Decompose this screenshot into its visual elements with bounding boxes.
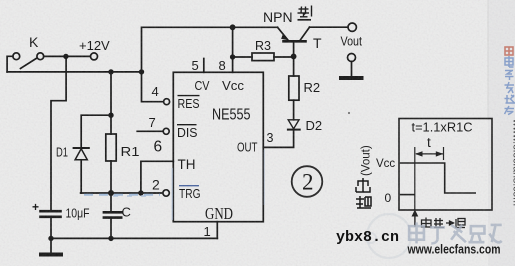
node TRG-TH junction (138, 190, 143, 195)
char shu (359, 196, 361, 208)
terminal Vout lower common (348, 54, 356, 62)
terminal Vout (348, 23, 356, 31)
node R3-Vcc junction (230, 54, 235, 59)
watermark logo faint (367, 214, 411, 258)
wire junction K down to capacitor branch (51, 59, 66, 210)
wire +12V rail (7, 71, 141, 73)
capacitor C plates (104, 211, 121, 214)
char duan (435, 218, 437, 228)
wire switch right to +12V terminal (44, 55, 91, 57)
wire TRG node (81, 192, 163, 194)
waveform inset diagram (399, 119, 492, 211)
dimension line t (416, 153, 444, 155)
node ground-C junction (108, 236, 113, 241)
wire C to ground rail (110, 218, 112, 239)
switch-on arrow stem (414, 216, 416, 227)
dimension arrowheads (412, 151, 444, 216)
node rail-R1 junction (108, 69, 113, 74)
waveform high level (400, 163, 476, 193)
diode D2 (288, 120, 299, 129)
svg-text:www.elecfans.com: www.elecfans.com (511, 118, 515, 206)
wire capacitor 10uF to ground rail (50, 217, 52, 239)
terminal pin2 (163, 190, 169, 196)
char you (505, 106, 515, 115)
arrow (446, 222, 452, 224)
waveform t-start marker (414, 147, 416, 210)
transistor Q T (278, 27, 310, 76)
char shao (505, 95, 515, 103)
node D1-R1 top junction (108, 113, 113, 118)
ground symbol (50, 238, 52, 253)
seal mark (505, 47, 513, 55)
char tong (455, 219, 457, 227)
resistor R3 (252, 53, 274, 61)
waveform box (399, 119, 492, 211)
diode D1 (74, 147, 89, 149)
waveform labels (361, 121, 473, 206)
node TRG-C junction (108, 190, 114, 196)
wire rail to R1 (110, 72, 112, 134)
switch-on arrow below box (412, 210, 419, 217)
char dian (505, 56, 514, 67)
switch K blade (21, 58, 37, 68)
char chu (358, 181, 368, 186)
scan speck (348, 112, 350, 114)
node topline-Vcc junction (230, 24, 236, 30)
watermark vertical elecfans column (505, 47, 515, 206)
wire C branch (110, 193, 112, 212)
wire top line to transistor (142, 27, 278, 72)
blue scan artifact box edge (171, 168, 173, 220)
char fa (505, 82, 515, 93)
node base junction (291, 54, 297, 60)
wire pin4 from rail (142, 72, 164, 102)
node ground-cap junction (48, 236, 53, 241)
wire switch left to rail (7, 56, 13, 72)
switch K terminals (13, 53, 20, 60)
wire R3 to base node (274, 56, 294, 58)
node K-12V junction (63, 54, 68, 59)
pseudo glyphs you-duan-tong annotation (422, 218, 466, 229)
svg-text:ybx8.cn: ybx8.cn (336, 230, 399, 246)
wire bottom ground rail (51, 237, 217, 239)
wire to R3 (233, 56, 252, 58)
pin5 stub (203, 59, 205, 73)
terminal +12V (91, 53, 98, 60)
wire TH branch (141, 161, 173, 193)
callout circled 2 (292, 166, 323, 197)
resistor R2 (289, 76, 299, 100)
pin7 stub wire (137, 130, 163, 132)
terminal pin4 (164, 99, 170, 105)
capacitor 10uF plates (41, 210, 61, 213)
pseudo glyph CJK xing of NPN type (298, 6, 312, 20)
node rail-pin4 junction (139, 69, 144, 74)
waveform zero tick (400, 194, 415, 196)
resistor R1 (106, 134, 116, 161)
wire Vcc drop pin8 (232, 27, 234, 72)
wire R1 to TRG node (110, 161, 112, 193)
watermark CJK dianzifashaoyou (409, 222, 502, 243)
pseudo glyph shuchu axis label (356, 178, 371, 208)
wire emitter to Vout (310, 26, 349, 28)
pin1 stub (216, 222, 218, 239)
terminal pin7 (163, 128, 169, 134)
diode D1 loop wires (81, 115, 111, 148)
wire D2 to pin3 OUT (263, 130, 293, 148)
scan edge shading (488, 0, 515, 266)
IC U1 NE555 box (173, 72, 263, 221)
char you (425, 218, 427, 228)
wire R2 to D2 (293, 100, 295, 120)
char zi (505, 71, 514, 81)
blue scan tint on TRG wire (84, 195, 160, 196)
